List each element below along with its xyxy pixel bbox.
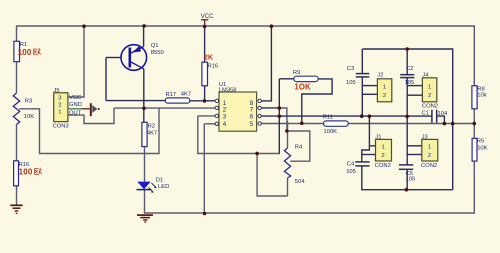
svg-text:2: 2 xyxy=(223,107,227,114)
svg-text:1: 1 xyxy=(428,85,431,91)
svg-text:5: 5 xyxy=(250,121,254,128)
svg-text:R11: R11 xyxy=(323,114,333,120)
svg-text:100: 100 xyxy=(18,48,32,57)
svg-text:J1: J1 xyxy=(375,134,381,140)
svg-text:C2: C2 xyxy=(406,66,413,72)
svg-text:J5: J5 xyxy=(54,88,60,94)
svg-text:4K7: 4K7 xyxy=(181,91,191,97)
svg-text:R2: R2 xyxy=(148,123,155,129)
svg-text:105: 105 xyxy=(346,80,356,86)
svg-text:J2: J2 xyxy=(377,73,383,79)
svg-text:105: 105 xyxy=(406,176,416,182)
svg-text:3: 3 xyxy=(58,96,61,102)
svg-text:OUT: OUT xyxy=(69,111,82,117)
svg-text:C1: C1 xyxy=(422,110,429,116)
svg-text:105: 105 xyxy=(346,169,356,175)
svg-text:3: 3 xyxy=(223,114,227,121)
svg-text:104: 104 xyxy=(438,111,448,117)
svg-text:D1: D1 xyxy=(156,178,163,184)
svg-text:LED: LED xyxy=(158,184,169,190)
svg-text:2K: 2K xyxy=(204,53,214,62)
svg-text:C3: C3 xyxy=(347,66,354,72)
svg-text:4: 4 xyxy=(223,121,227,128)
svg-text:4K7: 4K7 xyxy=(147,130,157,136)
svg-text:C4: C4 xyxy=(347,162,355,168)
svg-text:1: 1 xyxy=(428,144,431,150)
svg-text:6: 6 xyxy=(250,114,254,121)
svg-text:CON2: CON2 xyxy=(421,163,437,169)
svg-text:J4: J4 xyxy=(422,73,429,79)
svg-text:Q1: Q1 xyxy=(151,43,159,49)
svg-text:R16: R16 xyxy=(208,63,219,69)
svg-text:2: 2 xyxy=(428,153,431,159)
svg-text:8550: 8550 xyxy=(151,50,164,56)
svg-text:J3: J3 xyxy=(422,134,428,140)
svg-text:R17: R17 xyxy=(166,92,177,98)
svg-text:10k: 10k xyxy=(477,92,486,98)
svg-text:1: 1 xyxy=(382,144,385,150)
svg-text:1: 1 xyxy=(58,110,61,116)
svg-text:7: 7 xyxy=(250,107,254,114)
svg-text:LM358: LM358 xyxy=(219,87,237,93)
svg-text:GND: GND xyxy=(69,102,82,108)
svg-text:VCC: VCC xyxy=(69,95,81,101)
svg-text:2: 2 xyxy=(58,103,61,109)
svg-text:CON2: CON2 xyxy=(375,163,391,169)
svg-text:2: 2 xyxy=(428,93,431,99)
svg-text:100: 100 xyxy=(19,168,33,177)
svg-text:2: 2 xyxy=(382,153,385,159)
svg-text:R5: R5 xyxy=(477,139,484,145)
svg-text:1: 1 xyxy=(383,85,386,91)
svg-text:CON3: CON3 xyxy=(53,123,69,129)
svg-text:1OK: 1OK xyxy=(294,83,311,92)
svg-text:10K: 10K xyxy=(477,146,487,152)
svg-text:105: 105 xyxy=(405,80,415,86)
svg-text:R4: R4 xyxy=(295,145,303,151)
svg-text:100K: 100K xyxy=(324,129,338,135)
svg-text:CON2: CON2 xyxy=(422,103,438,109)
svg-text:R3: R3 xyxy=(25,98,32,104)
svg-text:R9: R9 xyxy=(293,70,300,76)
svg-text:10K: 10K xyxy=(24,114,34,120)
svg-text:504: 504 xyxy=(295,179,305,185)
svg-text:2: 2 xyxy=(383,93,386,99)
